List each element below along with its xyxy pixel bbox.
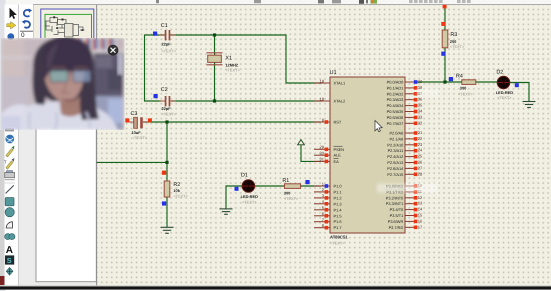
wire R1 to P1.0 [301,185,322,187]
overview green viewport rect [45,14,92,40]
overview mini schematic [45,18,85,38]
svg-text:P2.4/A12: P2.4/A12 [387,154,403,159]
wire R4 to D2 [475,81,498,83]
svg-text:R1: R1 [282,178,289,184]
wire EA power [301,146,321,161]
overview window [33,5,97,38]
svg-text:ALE: ALE [334,153,342,158]
svg-text:P0.2/AD2: P0.2/AD2 [387,91,404,96]
svg-text:<TEXT>: <TEXT> [173,193,188,198]
webcam overlay [1,37,125,131]
cut icon under webcam edge [5,128,14,131]
svg-text:14: 14 [418,207,423,212]
gray toolbar button bottoms [409,0,471,3]
colourful mini icon in toolbar sliver [371,0,378,4]
resistor R3 [441,5,465,56]
svg-text:P2.7/A15: P2.7/A15 [387,172,403,177]
redo C icon [24,10,30,17]
bangs [43,39,91,78]
svg-text:27: 27 [418,165,423,170]
svg-text:28: 28 [418,171,423,176]
2D circle tool [5,208,14,217]
wire X1 vertical [214,35,216,101]
svg-text:34: 34 [418,109,423,114]
ground R2 [161,227,174,233]
wire R3 bottom to junction [444,48,446,82]
purple cast bottom-left [1,116,21,130]
wire left edge to R2 junction [97,161,167,163]
svg-text:25: 25 [418,154,423,159]
svg-text:P1.4: P1.4 [334,207,343,212]
svg-text:35: 35 [418,103,423,108]
svg-text:RST: RST [334,120,342,125]
U1 right pin squares [414,80,418,229]
selection arrow icon [10,8,17,19]
shelf board under books [70,50,123,54]
svg-text:22: 22 [418,136,423,141]
glasses frame [44,71,94,83]
svg-text:P1.1: P1.1 [334,189,342,194]
shirt [1,102,118,130]
svg-text:C3: C3 [131,111,138,117]
svg-text:P2.0/A8: P2.0/A8 [389,131,403,136]
svg-text:P1.3: P1.3 [334,201,342,206]
svg-text:<TEXT>: <TEXT> [162,111,177,116]
svg-text:P3.2/INT0: P3.2/INT0 [386,195,404,200]
U1 left pin numbers [320,78,325,228]
svg-text:<TEXT>: <TEXT> [225,67,240,72]
symbol tool S [5,255,14,264]
svg-text:<TEXT>: <TEXT> [450,44,465,49]
neck [59,94,83,117]
svg-text:P3.7/RD: P3.7/RD [389,225,404,230]
glasses right lens [73,71,91,83]
svg-text:23: 23 [418,142,423,147]
light strip right edge [117,53,123,75]
svg-text:12: 12 [418,195,423,200]
marker tool [6,267,13,275]
svg-text:39: 39 [418,79,423,84]
svg-text:P0.7/AD7: P0.7/AD7 [387,121,404,126]
svg-text:PSEN: PSEN [334,147,345,152]
LED D1 [235,172,259,204]
wall background [1,38,125,130]
svg-text:15: 15 [418,213,423,218]
text-script pen icon [6,161,13,169]
mouse cursor [375,121,382,132]
shirt fold shadows [29,112,90,130]
svg-text:P0.1/AD1: P0.1/AD1 [387,85,404,90]
node R3/R4 junction [443,80,446,83]
LED D2 [496,69,519,100]
capacitor C2 [154,87,177,116]
eyebrow shadows above glasses [51,66,88,69]
chin shade [62,104,74,106]
wire D2 to ground [510,83,530,102]
svg-text:P2.1/A9: P2.1/A9 [389,136,403,141]
resistor R1 [282,178,309,201]
wire R3 top stub [444,8,446,30]
ground D2 [523,102,536,108]
wire C1 left rail to C2 left [145,35,167,101]
wire RST row [143,121,321,123]
ground D1 [220,209,233,214]
blue dot tool icon (partially hidden by webcam) [7,33,14,40]
svg-text:P2.6/A14: P2.6/A14 [387,166,404,171]
divider [5,182,16,184]
left toolbar column background [5,5,19,286]
zero text field [20,30,33,32]
resistor R4 [449,73,476,96]
svg-text:16: 16 [418,218,423,223]
schematic canvas [97,5,551,286]
left shoulder highlight [1,104,26,130]
U1 right pin labels [386,80,404,230]
svg-text:13: 13 [418,201,423,206]
capacitor C3 [125,111,152,140]
svg-text:XTAL2: XTAL2 [334,99,346,104]
hair [32,37,99,121]
maroon block bottom-left edge [0,276,5,285]
svg-text:26: 26 [418,160,423,165]
svg-text:P0.6/AD6: P0.6/AD6 [387,115,404,120]
nose shadow [62,84,69,94]
svg-text:19: 19 [320,78,325,83]
U1 left pin squares [325,120,329,229]
bottom black bar [0,285,551,287]
wire C1 right to XTAL1 [169,35,322,83]
svg-text:P3.5/T1: P3.5/T1 [390,213,404,218]
microcontroller U1 [330,70,406,246]
svg-text:32: 32 [418,120,423,125]
2D arc tool [6,222,12,228]
svg-text:R3: R3 [450,32,457,38]
overview blue sheet rect [41,9,94,40]
svg-text:U1: U1 [330,70,337,76]
left tool icons [4,128,15,275]
svg-text:21: 21 [418,130,423,135]
capacitor C1 [153,23,177,53]
node RST/C3 junction [165,120,168,123]
svg-text:P1.2: P1.2 [334,195,342,200]
undo arc icon [24,21,30,28]
svg-text:EA: EA [334,159,340,164]
svg-text:31: 31 [320,157,325,162]
svg-text:LED-RED: LED-RED [241,194,258,199]
svg-text:P1.7: P1.7 [334,225,342,230]
crystal X1 [207,53,241,73]
white shelf left [1,56,31,59]
2D line tool [6,185,14,193]
U1 right pin stubs [405,82,415,227]
svg-text:P0.4/AD4: P0.4/AD4 [387,103,404,108]
svg-text:P0.5/AD5: P0.5/AD5 [387,109,404,114]
U1 left pin stubs [314,83,330,228]
svg-text:<TEXT>: <TEXT> [133,135,148,140]
svg-text:X1: X1 [225,55,232,61]
left window edge strip [0,0,6,291]
svg-text:29: 29 [320,145,325,150]
U1 left pin labels [334,81,346,231]
node R2 junction [165,161,168,164]
svg-text:P3.4/T0: P3.4/T0 [390,207,404,212]
face [44,49,84,102]
power symbol [298,140,305,147]
yellow pointer icon [7,22,16,29]
svg-text:36: 36 [418,97,423,102]
dark desk area right [94,53,123,97]
svg-text:<TEXT>: <TEXT> [330,240,345,245]
close X button [108,45,119,56]
blue glow bottom right [94,96,123,130]
bookshelf top right [70,38,123,51]
svg-text:17: 17 [418,224,423,229]
svg-text:A: A [6,245,13,256]
second toolbar column (top only) [19,5,33,38]
wire P0.0 to junction [414,81,462,83]
svg-text:0: 0 [21,32,25,39]
2D closed path tool [5,234,11,240]
svg-text:24: 24 [418,148,423,153]
svg-text:P1.5: P1.5 [334,213,342,218]
svg-text:<TEXT>: <TEXT> [458,91,473,96]
svg-text:18: 18 [320,96,325,101]
svg-text:P2.3/A11: P2.3/A11 [388,148,404,153]
svg-text:D1: D1 [241,172,248,178]
wire RST junction down [166,122,168,162]
svg-text:P0.3/AD3: P0.3/AD3 [387,97,404,102]
svg-text:P2.5/A13: P2.5/A13 [387,160,403,165]
bus/package icon [5,172,15,177]
svg-text:P3.3/INT1: P3.3/INT1 [386,201,404,206]
junction dots [165,33,446,164]
gray gap + object selector panel [19,38,97,286]
svg-text:30: 30 [320,151,325,156]
svg-text:P1.0: P1.0 [334,184,343,189]
top toolbar sliver [0,0,551,5]
svg-text:R4: R4 [456,73,463,79]
svg-text:<TEXT>: <TEXT> [162,48,177,53]
faint video watermark smudges [377,89,439,193]
svg-text:D2: D2 [496,69,503,75]
node X1 top junction [213,33,216,36]
node X1 bottom junction [213,99,216,102]
svg-text:<TEXT>: <TEXT> [284,196,299,201]
wire C2 right to XTAL2 [171,100,322,102]
svg-text:P2.2/A10: P2.2/A10 [387,142,404,147]
mouth [62,100,74,102]
2D box tool [5,198,14,206]
svg-text:XTAL1: XTAL1 [334,81,346,86]
U1 right pin numbers [418,79,423,229]
svg-text:S: S [7,256,12,265]
wire D1 to R1 [254,185,285,187]
svg-text:<TEXT>: <TEXT> [242,200,257,205]
svg-text:22pF: 22pF [162,42,172,47]
svg-text:33: 33 [418,114,423,119]
wire-label pen icon [6,149,13,157]
globe icon [5,135,14,144]
svg-text:P1.6: P1.6 [334,219,342,224]
wire R2 top lead [166,162,168,181]
svg-text:C1: C1 [161,23,168,29]
svg-text:<TEXT>: <TEXT> [497,95,512,100]
svg-text:300: 300 [460,85,467,90]
glasses left lens [50,71,68,83]
svg-text:13 57 03 93 85: 13 57 03 93 85 [384,187,406,191]
svg-text:AT89C51: AT89C51 [330,235,348,240]
wire D1 ground lead [226,186,243,209]
svg-text:P0.0/AD0: P0.0/AD0 [387,80,404,85]
svg-text:P3.6/WR: P3.6/WR [388,219,404,224]
svg-text:C2: C2 [161,87,168,93]
wire R2 bottom to ground [166,197,168,227]
svg-text:T: T [4,160,7,165]
resistor R2 [162,171,189,206]
